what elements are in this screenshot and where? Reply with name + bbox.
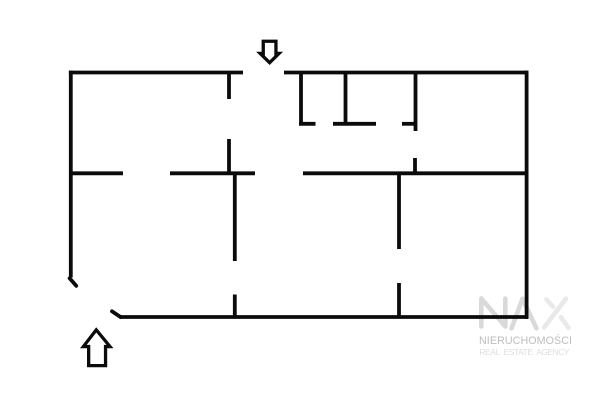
- svg-text:REAL ESTATE AGENCY: REAL ESTATE AGENCY: [480, 347, 570, 357]
- svg-text:NIERUCHOMOŚCI: NIERUCHOMOŚCI: [479, 334, 572, 347]
